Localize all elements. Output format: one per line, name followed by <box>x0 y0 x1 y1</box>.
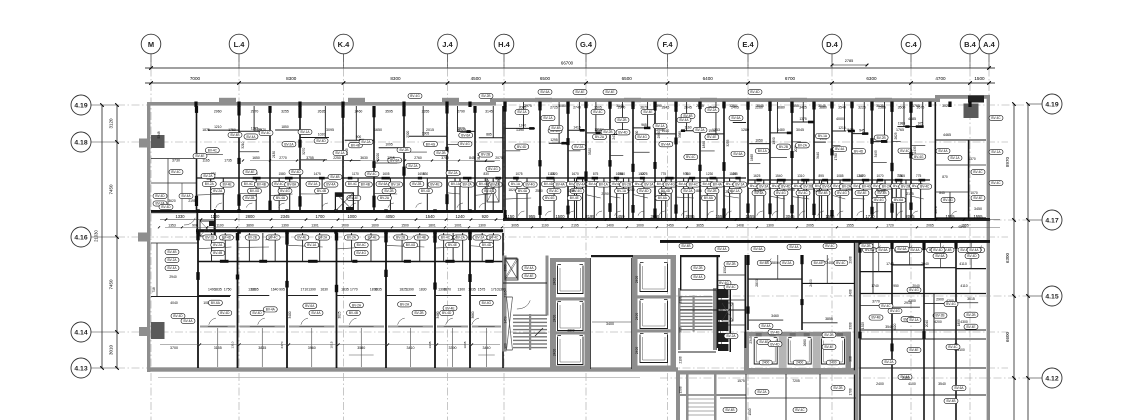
svg-text:BV-1A: BV-1A <box>335 151 345 155</box>
svg-text:3225: 3225 <box>858 106 866 110</box>
svg-text:BV-1A: BV-1A <box>511 182 521 186</box>
room partitions <box>587 132 610 134</box>
balcony edge line south <box>158 377 640 379</box>
pod band <box>198 261 238 263</box>
shear wall block west at 4.18 <box>151 135 165 148</box>
bathroom pod <box>568 177 586 179</box>
svg-text:2200: 2200 <box>627 188 635 192</box>
svg-text:3500: 3500 <box>898 106 906 110</box>
svg-text:4300: 4300 <box>908 299 916 303</box>
svg-text:BV-2B: BV-2B <box>248 236 257 240</box>
svg-text:BV-4C: BV-4C <box>689 183 699 187</box>
svg-text:1555: 1555 <box>846 223 854 227</box>
duct shaft with X near J.4 <box>487 178 499 202</box>
corridor south wall (east wing) <box>660 240 990 243</box>
svg-text:3095: 3095 <box>326 128 334 132</box>
room label ovals <box>398 302 412 307</box>
door arc <box>279 203 285 208</box>
balcony wall <box>388 326 433 328</box>
svg-text:900: 900 <box>504 343 508 349</box>
svg-text:2845: 2845 <box>662 106 670 110</box>
bathroom pod <box>872 179 892 181</box>
room partitions <box>655 133 675 135</box>
svg-text:B.4: B.4 <box>964 40 977 49</box>
grid bubble F.4 <box>667 54 669 68</box>
right outer dimension line <box>1027 104 1029 420</box>
unit party wall <box>859 242 861 420</box>
grid line M <box>150 54 152 420</box>
svg-text:BV-4G: BV-4G <box>776 191 786 195</box>
svg-text:BV-2A: BV-2A <box>456 236 466 240</box>
svg-text:BV-4B: BV-4B <box>361 183 370 187</box>
unit partition walls <box>891 102 893 218</box>
row bubble 4.15 (right) <box>1028 295 1042 297</box>
top wall junction blobs <box>194 102 197 108</box>
bathroom pod <box>475 177 503 179</box>
svg-text:BV-2B: BV-2B <box>399 148 408 152</box>
svg-text:BV-4E: BV-4E <box>195 154 204 158</box>
svg-text:1500: 1500 <box>401 223 409 227</box>
svg-text:1000: 1000 <box>636 223 644 227</box>
unit label <box>205 148 219 153</box>
pod labels <box>654 181 668 186</box>
north-east corner room 4465 <box>935 102 937 218</box>
svg-text:BV-4A: BV-4A <box>679 118 689 122</box>
svg-text:2908: 2908 <box>849 256 853 263</box>
svg-text:2400: 2400 <box>826 261 834 265</box>
svg-text:1170: 1170 <box>352 172 359 176</box>
exterior wall east <box>987 98 990 420</box>
svg-text:BV-4E: BV-4E <box>814 261 823 265</box>
svg-text:1565: 1565 <box>898 174 905 178</box>
door arc corridor side <box>220 235 227 240</box>
corridor south wall (west wing) <box>196 229 503 232</box>
grid line D.4 <box>831 54 833 420</box>
grid bubble E.4 <box>747 54 749 68</box>
svg-text:2285: 2285 <box>877 189 885 193</box>
svg-text:BV-2B: BV-2B <box>436 151 445 155</box>
corridor south wall (west wing) <box>196 229 503 232</box>
svg-text:BV-4E: BV-4E <box>448 243 457 247</box>
wall nub west at 4.16 <box>138 233 147 242</box>
svg-text:830: 830 <box>423 172 429 176</box>
svg-text:2800: 2800 <box>755 279 759 287</box>
svg-text:2790: 2790 <box>457 110 465 114</box>
svg-text:875: 875 <box>593 172 599 176</box>
svg-text:7000: 7000 <box>190 76 201 81</box>
svg-text:900: 900 <box>192 223 198 227</box>
svg-text:2320: 2320 <box>406 130 410 137</box>
unit label <box>479 152 493 157</box>
svg-text:8300: 8300 <box>286 76 297 81</box>
corridor dim ticks row1 <box>160 219 1000 221</box>
bathroom pod <box>633 177 655 179</box>
svg-text:2645: 2645 <box>684 106 692 110</box>
svg-text:1310: 1310 <box>231 341 235 348</box>
pod labels <box>748 183 762 188</box>
svg-text:6500: 6500 <box>622 76 633 81</box>
svg-text:BV-4G: BV-4G <box>874 198 884 202</box>
svg-text:3045: 3045 <box>616 104 624 108</box>
bathroom pod <box>270 177 300 179</box>
svg-text:3630: 3630 <box>360 156 368 160</box>
door arc corridor side <box>316 235 323 240</box>
svg-text:BV-4E: BV-4E <box>643 110 652 114</box>
svg-text:1935: 1935 <box>428 341 432 348</box>
unit party wall <box>197 233 199 368</box>
svg-text:BV-4D: BV-4D <box>220 311 230 315</box>
door arc <box>975 246 982 250</box>
pod labels <box>891 183 905 188</box>
svg-text:3080: 3080 <box>558 104 566 108</box>
room mid wall <box>386 295 416 297</box>
unit partition walls <box>675 102 677 218</box>
room label ovals <box>443 305 457 310</box>
pod labels <box>241 181 255 186</box>
row bubble 4.12 (right) <box>1028 377 1042 379</box>
grid line 4.16 (left) <box>117 236 1008 238</box>
svg-text:BV-4E: BV-4E <box>575 90 584 94</box>
svg-text:BV-4G: BV-4G <box>482 301 492 305</box>
unit partition walls <box>769 102 771 218</box>
bathroom pod <box>343 177 374 179</box>
balcony wall <box>200 326 236 328</box>
svg-text:BV-4G: BV-4G <box>460 142 470 146</box>
svg-text:BV-2B: BV-2B <box>693 266 702 270</box>
svg-text:2065: 2065 <box>926 223 934 227</box>
svg-text:BV-1A: BV-1A <box>308 182 318 186</box>
svg-text:1540: 1540 <box>425 214 435 219</box>
grid line 4.17 (right) <box>660 219 1028 221</box>
room walls <box>956 302 978 304</box>
corridor north wall (east wing) <box>503 218 990 221</box>
svg-text:3540: 3540 <box>838 106 846 110</box>
grid line 4.12 (right) <box>660 377 1028 379</box>
svg-text:2960: 2960 <box>214 110 222 114</box>
elevator bank C walls (horizontal) <box>748 332 851 337</box>
stair 1 stringer <box>529 314 531 350</box>
unit party wall <box>434 233 436 368</box>
room partitions <box>610 134 629 136</box>
svg-text:3210: 3210 <box>241 141 245 148</box>
unit label <box>898 148 912 153</box>
svg-text:BV-4C: BV-4C <box>549 189 559 193</box>
svg-text:L.4: L.4 <box>234 40 246 49</box>
svg-text:3670: 3670 <box>640 106 648 110</box>
balcony mullions <box>486 328 488 367</box>
door arc <box>479 203 485 208</box>
svg-text:BV-1A: BV-1A <box>517 110 527 114</box>
elevator bank C shafts <box>754 339 777 365</box>
svg-text:BV-4A: BV-4A <box>789 245 799 249</box>
exterior wall top (west part) <box>147 102 496 106</box>
unit label <box>459 133 473 138</box>
door arc <box>726 211 732 216</box>
grid line 4.14 (left) <box>117 331 1008 333</box>
east block extra ovals <box>879 303 893 308</box>
unit partition walls <box>723 102 725 218</box>
svg-text:2625: 2625 <box>894 132 898 139</box>
svg-text:BV-2B: BV-2B <box>803 185 812 189</box>
unit label <box>515 144 529 149</box>
svg-text:BV-1A: BV-1A <box>543 116 553 120</box>
svg-text:3045: 3045 <box>785 214 795 219</box>
unit partition walls <box>196 106 198 210</box>
svg-text:BV-4D: BV-4D <box>967 254 977 258</box>
west extra room ovals <box>193 153 207 158</box>
svg-text:BV-4C: BV-4C <box>244 182 254 186</box>
pod band <box>435 261 470 263</box>
svg-text:BV-4E: BV-4E <box>446 306 455 310</box>
west wing dim string y163 <box>250 160 500 162</box>
svg-text:2015: 2015 <box>426 128 434 132</box>
svg-text:1095: 1095 <box>385 143 393 147</box>
svg-text:2095: 2095 <box>685 214 695 219</box>
svg-text:1015: 1015 <box>330 341 334 348</box>
svg-text:7450: 7450 <box>109 184 114 195</box>
unit partition walls <box>474 106 476 210</box>
svg-text:6600: 6600 <box>1005 331 1010 342</box>
svg-text:4.15: 4.15 <box>1045 294 1058 301</box>
shaft above stair 1 <box>505 259 518 280</box>
duct shaft with X at K.4 corridor <box>335 193 353 211</box>
svg-text:1310: 1310 <box>797 174 804 178</box>
svg-text:BV-4G: BV-4G <box>280 189 290 193</box>
svg-text:BV-4C: BV-4C <box>261 131 271 135</box>
svg-text:BV-4G: BV-4G <box>909 288 919 292</box>
grid line 4.13 (left) <box>117 367 1008 369</box>
svg-text:1555: 1555 <box>745 214 755 219</box>
grid line L.4 <box>238 54 240 420</box>
balcony wall <box>437 326 468 328</box>
svg-text:1708: 1708 <box>849 388 853 395</box>
rooms below bank C <box>676 370 858 374</box>
svg-text:3320: 3320 <box>588 148 592 155</box>
svg-text:J.4: J.4 <box>442 40 453 49</box>
svg-text:1765: 1765 <box>912 104 920 108</box>
svg-text:BV-1A: BV-1A <box>950 156 960 160</box>
room mid wall <box>435 295 461 297</box>
corridor north wall (west wing) <box>151 210 503 213</box>
svg-text:BV-4G: BV-4G <box>488 167 498 171</box>
pod <box>892 264 924 266</box>
unit label <box>755 148 769 153</box>
svg-text:2195: 2195 <box>585 214 595 219</box>
svg-text:1508: 1508 <box>679 386 683 393</box>
svg-text:3755: 3755 <box>306 156 314 160</box>
svg-text:BV-6A: BV-6A <box>461 133 471 137</box>
unit partition walls <box>342 106 344 210</box>
svg-text:BV-4B: BV-4B <box>725 408 734 412</box>
svg-text:BV-4G: BV-4G <box>862 185 872 189</box>
unit label <box>852 149 866 154</box>
svg-text:BV-4A: BV-4A <box>835 147 845 151</box>
balcony mullions <box>311 328 313 367</box>
svg-text:BV-4A: BV-4A <box>556 183 566 187</box>
svg-text:8300: 8300 <box>390 76 401 81</box>
svg-text:1459: 1459 <box>504 316 508 323</box>
corridor south wall (east wing) <box>660 240 990 243</box>
pod ovals <box>245 235 259 240</box>
svg-text:3730: 3730 <box>172 159 180 163</box>
door arc <box>912 211 918 216</box>
svg-text:2195: 2195 <box>504 290 508 297</box>
svg-text:BV-4D: BV-4D <box>854 149 864 153</box>
room label ovals <box>303 303 317 308</box>
svg-text:1555: 1555 <box>945 214 955 219</box>
grid bubble H.4 <box>503 54 505 68</box>
bathroom pod <box>814 179 832 181</box>
svg-text:4300: 4300 <box>960 320 968 324</box>
room partitions <box>852 133 868 135</box>
svg-text:BV-4E: BV-4E <box>909 348 918 352</box>
svg-text:945: 945 <box>859 129 865 133</box>
unit label <box>388 158 402 163</box>
svg-text:3460: 3460 <box>771 314 779 318</box>
door arc <box>681 211 687 216</box>
svg-text:4040: 4040 <box>170 301 178 305</box>
corridor wall piers <box>196 209 200 212</box>
row bubble 4.14 (left) <box>91 331 117 333</box>
svg-text:1165: 1165 <box>202 159 209 163</box>
svg-text:BV-4C: BV-4C <box>900 149 910 153</box>
svg-text:BV-1A: BV-1A <box>644 183 654 187</box>
svg-text:1390: 1390 <box>248 288 256 292</box>
svg-text:BV-2A: BV-2A <box>213 189 223 193</box>
svg-text:955: 955 <box>529 214 537 219</box>
door arc <box>322 203 328 208</box>
svg-text:1835: 1835 <box>214 288 222 292</box>
svg-text:BV-4E: BV-4E <box>430 183 439 187</box>
svg-text:1015: 1015 <box>787 188 795 192</box>
svg-text:BV-2B: BV-2B <box>779 145 788 149</box>
east wing heavy party wall <box>855 242 859 420</box>
pod labels <box>376 181 390 186</box>
svg-text:BV-4D: BV-4D <box>750 90 760 94</box>
svg-text:BV-4E: BV-4E <box>245 170 254 174</box>
svg-text:1050: 1050 <box>755 139 763 143</box>
unit partition walls <box>791 102 793 218</box>
svg-text:BV-4D: BV-4D <box>161 205 171 209</box>
svg-text:BV-4G: BV-4G <box>406 243 416 247</box>
NE corner small cells <box>968 140 970 218</box>
grid bubble G.4 <box>585 54 587 68</box>
svg-text:BV-4A: BV-4A <box>183 319 193 323</box>
svg-text:3450: 3450 <box>974 207 982 211</box>
stair 2 stringer <box>693 296 695 332</box>
pod labels <box>724 181 738 186</box>
svg-text:1875: 1875 <box>202 128 210 132</box>
svg-text:4110: 4110 <box>960 284 967 288</box>
svg-text:BV-4A: BV-4A <box>181 194 191 198</box>
svg-text:950: 950 <box>893 284 899 288</box>
svg-text:BV-4B: BV-4B <box>551 126 560 130</box>
exterior wall west <box>147 102 150 372</box>
bathroom pod <box>239 177 270 179</box>
svg-text:BV-4C: BV-4C <box>973 170 983 174</box>
svg-text:BV-2B: BV-2B <box>833 386 842 390</box>
svg-text:2108: 2108 <box>679 356 683 363</box>
svg-text:3255: 3255 <box>726 139 730 146</box>
pod ovals <box>473 235 487 240</box>
door arc corridor side <box>265 235 272 240</box>
svg-text:BV-4B: BV-4B <box>213 251 222 255</box>
pod ovals <box>295 235 309 240</box>
svg-text:6300: 6300 <box>1005 252 1010 263</box>
pod ovals <box>344 235 358 240</box>
unit label <box>815 133 829 138</box>
svg-text:1390: 1390 <box>281 223 289 227</box>
svg-text:BV-4A: BV-4A <box>576 183 586 187</box>
room label ovals <box>208 300 222 305</box>
svg-text:1801: 1801 <box>428 223 436 227</box>
corridor north wall (east wing) <box>503 218 990 221</box>
door arc <box>799 211 805 216</box>
svg-text:965: 965 <box>641 123 647 127</box>
balcony door arc <box>349 318 356 325</box>
room partitions <box>633 127 647 129</box>
svg-text:2370: 2370 <box>280 341 284 348</box>
svg-text:BV-1A: BV-1A <box>617 189 627 193</box>
left segment dimension line <box>116 105 118 368</box>
balcony wall <box>289 326 335 328</box>
svg-text:895: 895 <box>819 174 825 178</box>
svg-text:BV-4E: BV-4E <box>223 183 232 187</box>
grid bubble D.4 <box>831 54 833 68</box>
svg-text:BV-4E: BV-4E <box>966 325 975 329</box>
stair 1 up arrow <box>535 328 543 336</box>
svg-text:BV-2A: BV-2A <box>757 390 767 394</box>
svg-text:1300: 1300 <box>457 288 465 292</box>
svg-text:1555: 1555 <box>715 214 725 219</box>
svg-text:1720: 1720 <box>865 214 875 219</box>
svg-text:3255: 3255 <box>281 110 289 114</box>
exterior wall south (west wing) <box>147 367 678 371</box>
svg-text:1075: 1075 <box>515 172 522 176</box>
room partitions <box>239 130 267 132</box>
pod ovals <box>394 235 408 240</box>
svg-text:6400: 6400 <box>703 76 714 81</box>
svg-text:BV-2A: BV-2A <box>205 182 215 186</box>
svg-text:BV-4D: BV-4D <box>316 139 326 143</box>
room walls <box>802 322 838 324</box>
unit label <box>616 130 630 135</box>
svg-text:1750: 1750 <box>228 128 236 132</box>
grid line C.4 <box>910 54 912 420</box>
svg-text:1070: 1070 <box>876 174 883 178</box>
svg-text:2400: 2400 <box>876 382 884 386</box>
svg-text:3035: 3035 <box>876 104 884 108</box>
svg-text:BV-2A: BV-2A <box>203 174 213 178</box>
unit partition walls <box>654 102 656 218</box>
svg-text:1020: 1020 <box>318 133 326 137</box>
NE corner pod walls <box>935 217 986 219</box>
svg-text:805: 805 <box>732 172 738 176</box>
unit label <box>777 144 791 149</box>
svg-text:1459: 1459 <box>615 214 625 219</box>
svg-text:1420: 1420 <box>658 191 666 195</box>
room mid wall <box>198 295 231 297</box>
svg-text:BV-4E: BV-4E <box>524 274 533 278</box>
unit label <box>348 143 362 148</box>
unit party wall <box>469 233 471 368</box>
grid bubble L.4 <box>238 54 240 68</box>
svg-text:3045: 3045 <box>796 128 804 132</box>
svg-text:BV-6A: BV-6A <box>658 196 668 200</box>
duct column dark cells <box>718 289 729 298</box>
svg-text:1580: 1580 <box>278 172 285 176</box>
svg-text:3890: 3890 <box>246 223 254 227</box>
